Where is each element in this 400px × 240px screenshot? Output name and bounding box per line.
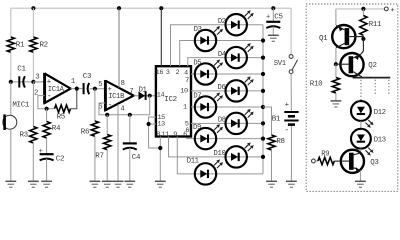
svg-text:D12: D12 (374, 109, 386, 117)
svg-text:7: 7 (129, 88, 133, 96)
wire D7 row (191, 106, 263, 108)
wire C3 to pin5 (89, 88, 105, 90)
LED D8 (226, 113, 247, 134)
wire D8 row (191, 122, 263, 124)
wire bus to R8 (263, 107, 272, 135)
LED D11 (195, 163, 216, 184)
wire R1 stem (10, 8, 12, 37)
LED D6 (226, 80, 247, 101)
svg-text:D2: D2 (218, 18, 226, 26)
node rail-IC1B pin8 junction (117, 6, 121, 10)
svg-text:R5: R5 (57, 113, 66, 121)
wire Q1 base to R11 node (349, 37, 363, 39)
transistor Q1 (332, 25, 355, 48)
ground C4 (124, 180, 135, 182)
svg-text:D10: D10 (214, 150, 226, 158)
wire R4 to C2 (46, 138, 48, 154)
wire rail corner to SV1 (290, 8, 292, 54)
wire IC1B pin8 supply (118, 8, 120, 87)
ground C5 (268, 34, 279, 36)
node bus D8 junction (261, 121, 265, 125)
svg-text:R8: R8 (276, 138, 284, 146)
svg-text:8: 8 (121, 80, 125, 88)
wire R8 to ground (271, 150, 273, 181)
wire R7 to ground (106, 150, 108, 182)
resistor R11 (362, 9, 364, 16)
LED D12 (351, 101, 371, 121)
svg-text:+: + (266, 14, 270, 22)
node R7 top junction (105, 113, 109, 117)
capacitor C1 (18, 76, 20, 87)
node bus D3 junction (261, 38, 265, 42)
transistor Q2 (340, 53, 363, 76)
svg-text:-: - (47, 91, 52, 101)
wire dotted drop 2 (374, 80, 376, 96)
wire R3 to ground (32, 143, 34, 181)
resistor R2 (30, 37, 37, 52)
svg-text:+: + (39, 148, 43, 156)
svg-text:D5: D5 (193, 60, 201, 68)
wire mic to ground (10, 129, 12, 181)
svg-text:D4: D4 (218, 51, 226, 59)
svg-text:C4: C4 (132, 154, 141, 162)
svg-text:Q3: Q3 (370, 159, 379, 167)
svg-text:SV1: SV1 (274, 60, 286, 68)
IC IC2 LM3915 box (156, 66, 191, 136)
wire D12 to D13 (360, 121, 362, 129)
node R4 top junction (45, 107, 49, 111)
wire right box top rail (336, 8, 384, 10)
svg-text:14: 14 (157, 91, 165, 99)
wire to IC1A pin3 (33, 81, 44, 83)
ground IC1B pin4 (113, 180, 124, 182)
resistor R1 (7, 37, 14, 52)
wire dotted drop 1 (360, 80, 362, 101)
node rail-R2 junction (31, 6, 35, 10)
LED D10 (226, 146, 247, 167)
svg-text:9: 9 (173, 131, 177, 139)
node output junction (75, 87, 79, 91)
wire D2 feed riser (171, 25, 264, 66)
wire R10 to ground (335, 93, 337, 101)
wire R9 to Q3 base (334, 160, 349, 162)
svg-text:C2: C2 (56, 156, 64, 164)
svg-text:C1: C1 (17, 66, 26, 74)
LED D3 (195, 30, 216, 51)
node rail-C5 junction (271, 6, 275, 10)
wire Q3 emitter to ground (359, 170, 361, 181)
node C1 left junction (9, 80, 13, 84)
svg-text:D1: D1 (139, 86, 147, 94)
wire R3 stem (32, 82, 34, 127)
svg-text:1: 1 (71, 78, 75, 86)
node R6 top junction (93, 87, 97, 91)
svg-text:6: 6 (183, 131, 187, 139)
node pin8 ground junction (158, 146, 162, 150)
LED D7 (195, 96, 216, 117)
svg-text:7: 7 (185, 77, 189, 85)
node Q2 base junction (334, 62, 338, 66)
wire mic stem (10, 82, 12, 115)
wire Q2 emitter to R11 node (361, 39, 363, 54)
wire D9 row (186, 138, 263, 140)
wire D10 feed drop (169, 137, 264, 157)
node D1 junction (148, 94, 152, 98)
ground R10 (331, 100, 342, 102)
wire R6 to ground (94, 136, 96, 181)
svg-text:R1: R1 (16, 42, 25, 50)
ground R6 (90, 180, 101, 182)
wire C4 to ground (129, 148, 131, 182)
wire IC1A output (71, 88, 83, 90)
svg-text:5: 5 (98, 81, 102, 89)
wire D3 feed riser (180, 41, 263, 67)
wire R2 bottom to C1 node (32, 52, 34, 82)
svg-text:4: 4 (120, 106, 124, 114)
svg-text:R2: R2 (40, 42, 48, 50)
svg-text:3: 3 (35, 74, 39, 82)
node bus D10 junction (261, 155, 265, 159)
resistor R8 (268, 135, 275, 150)
wire IC1B pin4 to ground (117, 104, 119, 181)
svg-text:Q2: Q2 (368, 62, 376, 70)
capacitor C3 (83, 83, 85, 94)
resistor R5 (55, 105, 71, 112)
resistor R7 (106, 115, 108, 135)
capacitor C4 (129, 115, 131, 144)
svg-text:R3: R3 (20, 132, 29, 140)
svg-text:D9: D9 (193, 124, 201, 132)
node rail-IC2 junction (159, 6, 163, 10)
diode D1 (139, 92, 146, 100)
op-amp IC1B (105, 81, 133, 111)
wire IC2 supply from rail (160, 8, 162, 66)
svg-text:C5: C5 (274, 13, 283, 21)
wire SV1 to battery (290, 74, 292, 112)
wire D1 node to feedback (149, 96, 151, 115)
ground R7 (102, 180, 113, 182)
svg-text:R9: R9 (321, 150, 329, 158)
svg-text:R11: R11 (369, 21, 382, 29)
resistor R9 (315, 160, 318, 162)
svg-text:3: 3 (166, 69, 170, 77)
wire dotted drop 3 (388, 80, 390, 96)
svg-text:2: 2 (176, 69, 180, 77)
wire IC2 pins 15 13 stubs (149, 117, 161, 148)
LED D4 (226, 47, 247, 68)
svg-text:C3: C3 (83, 73, 92, 81)
resistor R3 (30, 127, 37, 144)
wire R5 to output (71, 89, 77, 109)
node pin13 junction (147, 122, 151, 126)
wire Q1 emitter to rail (335, 9, 337, 25)
op-amp IC1A (45, 74, 71, 104)
wire D4 feed riser (188, 58, 263, 67)
node C1 right junction (31, 80, 35, 84)
svg-text:+: + (285, 101, 289, 109)
svg-text:R7: R7 (95, 153, 103, 161)
resistor R10 (335, 64, 337, 77)
node R11 bottom junction (362, 35, 364, 39)
resistor R6 (94, 89, 96, 121)
capacitor C5 (272, 8, 274, 22)
LED D9 (195, 128, 216, 149)
wire C2 to ground (46, 159, 48, 182)
svg-text:R4: R4 (52, 125, 61, 133)
node bus D6 junction (261, 89, 265, 93)
ground C2 (41, 180, 52, 182)
svg-text:10: 10 (180, 87, 188, 95)
svg-text:R6: R6 (81, 128, 90, 136)
node R11 top junction (361, 7, 365, 11)
terminal plus (384, 7, 388, 11)
wire LED bus (262, 25, 264, 174)
svg-text:IC2: IC2 (164, 96, 176, 104)
ground R8 (266, 180, 277, 182)
dashed expansion box (306, 4, 398, 191)
ground R3 (28, 180, 39, 182)
ground Q3 (355, 180, 366, 182)
wire C5 to ground (272, 26, 274, 35)
wire D11 feed drop (177, 137, 263, 174)
terminal R9 input (312, 159, 316, 163)
wire pin2 stub (38, 96, 55, 109)
node bus D9 junction (261, 137, 265, 141)
wire IC1B output (134, 95, 156, 97)
wire pin6 feedback run (99, 103, 150, 115)
wire D6 row (191, 90, 263, 92)
svg-text:Q1: Q1 (319, 35, 328, 43)
svg-text:-: - (284, 125, 289, 135)
ground IC2 (155, 180, 166, 182)
svg-text:D13: D13 (374, 137, 386, 145)
svg-text:13: 13 (157, 120, 165, 128)
svg-text:B1: B1 (272, 115, 281, 123)
svg-text:-: - (108, 100, 113, 110)
switch SV1 (289, 55, 293, 59)
wire C1 row (11, 81, 45, 83)
svg-text:MIC1: MIC1 (12, 102, 29, 110)
svg-text:D6: D6 (218, 84, 226, 92)
svg-text:D8: D8 (218, 117, 226, 125)
wire IC2 pin8 ground line (159, 137, 161, 182)
microphone MIC1 (3, 115, 17, 129)
ground mic (5, 180, 16, 182)
svg-text:8: 8 (156, 131, 160, 139)
svg-text:16: 16 (156, 69, 164, 77)
svg-text:D11: D11 (187, 158, 199, 166)
battery B1 (284, 111, 298, 113)
LED D13 (351, 129, 371, 149)
transistor Q3 (341, 150, 364, 173)
node bus D7 junction (261, 105, 265, 109)
wire Q2 base to node (336, 63, 349, 65)
svg-text:+: + (390, 7, 394, 15)
capacitor C2 (40, 153, 54, 155)
LED D5 (195, 63, 216, 84)
node C4 top junction (128, 113, 132, 117)
wire Q2 collector bus (353, 77, 391, 79)
svg-text:R10: R10 (310, 81, 323, 89)
wire R1 bottom to C1 node (10, 52, 12, 82)
wire top supply rail (11, 7, 291, 9)
wire battery to ground (290, 126, 292, 181)
wire D13 to Q3 (360, 149, 362, 153)
wire D5 row (191, 73, 263, 75)
wire Q1 collector down (335, 48, 337, 64)
LED D2 (226, 14, 247, 35)
svg-text:D7: D7 (193, 93, 201, 101)
wire R2 stem (32, 8, 34, 37)
resistor R4 (46, 109, 48, 122)
node bus D4 junction (261, 56, 265, 60)
svg-text:1: 1 (183, 104, 187, 112)
ground battery (286, 180, 297, 182)
svg-text:D3: D3 (194, 26, 202, 34)
node bus D5 junction (261, 72, 265, 76)
